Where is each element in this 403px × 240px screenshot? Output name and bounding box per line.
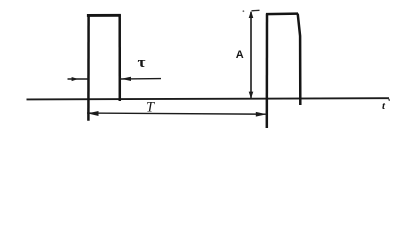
period arrow T (double-headed) [87,111,267,117]
time axis [27,98,390,101]
pulse P1 left edge [87,14,90,121]
pulse P1 right edge [118,14,121,101]
pulse P2 right edge [298,14,301,105]
pulse P2 top edge [266,12,298,15]
tau arrow left segment [68,77,89,81]
svg-text:τ: τ [138,55,146,71]
pulse P1 top edge [87,14,121,17]
amplitude arrow A (vertical double arrow) [243,10,260,98]
tau arrow right segment [120,77,161,81]
svg-text:A: A [236,49,244,61]
svg-text:t: t [382,100,386,112]
svg-text:T: T [146,100,155,116]
pulse P2 left edge [266,14,269,128]
